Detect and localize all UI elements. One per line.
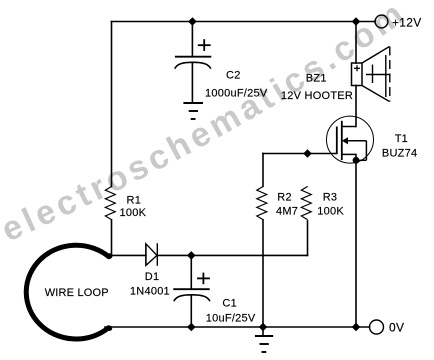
resistor R2 xyxy=(257,186,267,219)
wire C1 top lead xyxy=(190,255,192,289)
svg-text:1N4001: 1N4001 xyxy=(130,285,170,297)
wire loop node to diode xyxy=(112,254,146,256)
svg-text:R1: R1 xyxy=(127,194,142,206)
capacitor C2 xyxy=(175,39,212,68)
watermark electroschematics.com xyxy=(0,0,414,249)
ground under C2 xyxy=(183,103,203,119)
svg-text:10uF/25V: 10uF/25V xyxy=(206,312,256,324)
wire R3 bottom lead xyxy=(307,221,309,255)
svg-text:D1: D1 xyxy=(145,271,160,283)
wire C2 top lead xyxy=(191,22,193,57)
node dot source rail xyxy=(352,323,361,332)
svg-text:R3: R3 xyxy=(323,192,338,204)
wire mosfet source to bottom rail xyxy=(355,155,357,328)
svg-text:0V: 0V xyxy=(389,320,404,334)
wire loop xyxy=(26,245,109,339)
diode D1 xyxy=(146,243,157,265)
capacitor C1 xyxy=(173,273,210,302)
wire left column xyxy=(111,22,113,187)
svg-text:BZ1: BZ1 xyxy=(306,73,327,85)
wire 0V ground stub xyxy=(262,327,264,336)
node dot C1 bottom rail xyxy=(187,323,196,332)
svg-text:100K: 100K xyxy=(317,205,344,217)
wire C2 bottom lead to ground xyxy=(191,63,193,103)
node dot top rail C2 xyxy=(188,17,197,26)
wire top rail xyxy=(112,21,376,23)
svg-text:4M7: 4M7 xyxy=(276,205,298,217)
node dot R2 ground rail xyxy=(259,323,268,332)
svg-text:C2: C2 xyxy=(226,70,241,82)
resistor R3 xyxy=(301,186,311,219)
wire speaker to mosfet drain xyxy=(355,86,357,127)
ground at bottom rail xyxy=(255,336,273,352)
svg-text:R2: R2 xyxy=(277,192,292,204)
terminal +12V xyxy=(375,15,388,28)
svg-text:BUZ74: BUZ74 xyxy=(382,148,418,160)
svg-text:T1: T1 xyxy=(395,133,408,145)
node dot D1 C1 xyxy=(187,251,196,260)
wire diode to C1 node and R3 xyxy=(157,254,307,256)
svg-text:WIRE LOOP: WIRE LOOP xyxy=(45,287,109,299)
wire gate from R2 R3 xyxy=(263,153,337,155)
wire speaker top lead xyxy=(355,22,357,64)
resistor R1 xyxy=(105,186,115,219)
svg-text:C1: C1 xyxy=(222,298,237,310)
svg-text:+12V: +12V xyxy=(392,15,422,29)
svg-text:1000uF/25V: 1000uF/25V xyxy=(205,88,268,100)
svg-text:12V HOOTER: 12V HOOTER xyxy=(281,90,353,102)
wire R2 bottom lead xyxy=(262,220,264,327)
terminal 0V xyxy=(370,320,384,334)
svg-text:100K: 100K xyxy=(120,207,147,219)
mosfet T1 xyxy=(327,116,374,163)
wire R2 top lead xyxy=(262,154,264,187)
node dot top rail speaker xyxy=(352,17,361,26)
buzzer BZ1 xyxy=(352,47,391,102)
wire R1 bottom lead xyxy=(111,220,113,256)
node dot gate R3 xyxy=(303,149,312,158)
wire C1 bottom lead xyxy=(190,295,192,327)
wire bottom rail xyxy=(105,326,370,328)
